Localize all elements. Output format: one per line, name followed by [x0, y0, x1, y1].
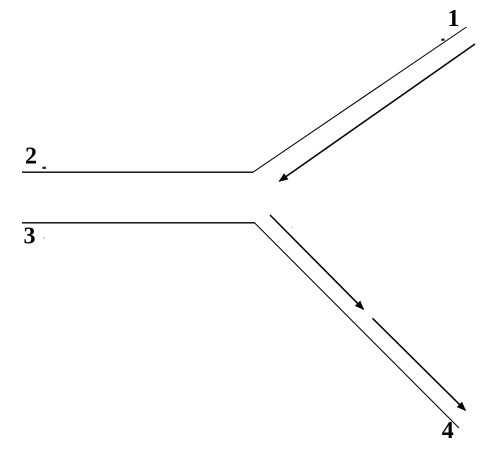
svg-text:2: 2 [25, 144, 37, 170]
svg-text:1: 1 [448, 6, 460, 32]
svg-text:4: 4 [442, 418, 454, 444]
svg-text:3: 3 [24, 223, 36, 249]
